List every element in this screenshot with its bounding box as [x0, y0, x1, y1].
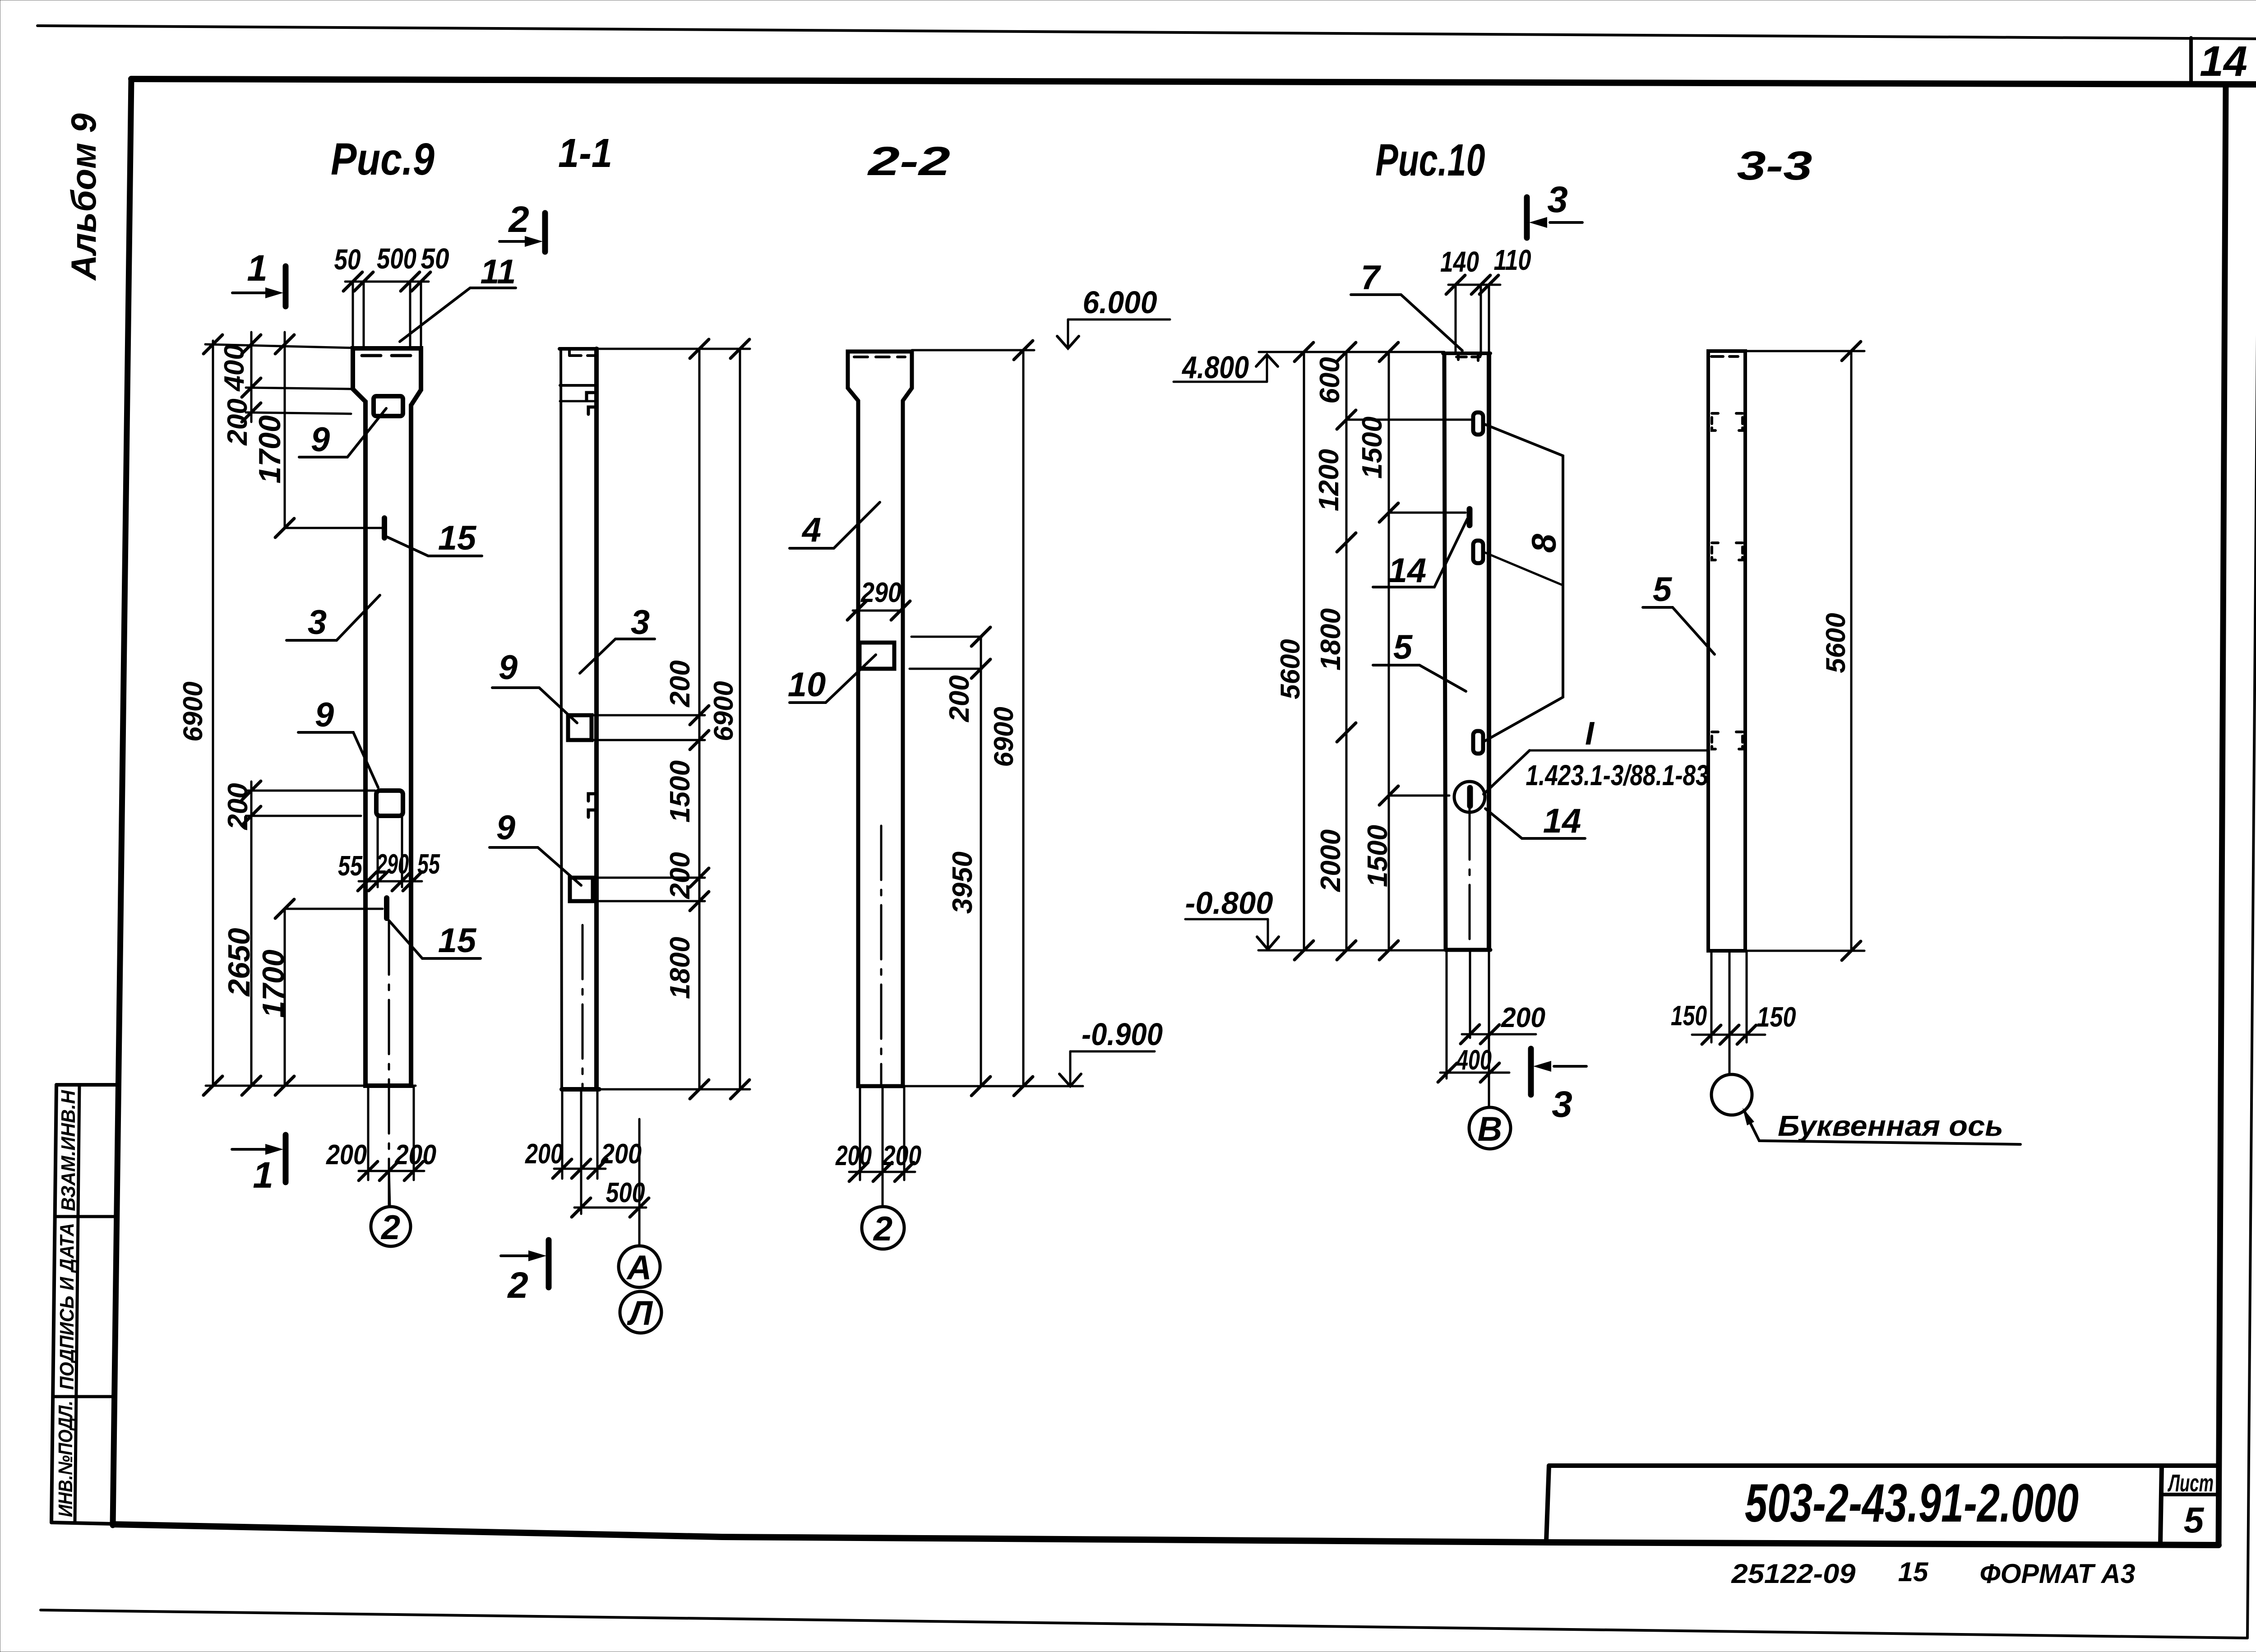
svg-text:1: 1 [253, 1155, 273, 1196]
svg-text:I: I [1585, 716, 1595, 752]
left stamp strip outline [56, 1083, 118, 1087]
title block top line [1549, 1463, 2219, 1468]
svg-text:14: 14 [2200, 37, 2247, 85]
chain 600/1200/1800/2000 [1345, 352, 1348, 950]
circled fixing mark 14 [1454, 782, 1485, 812]
top extension line [597, 348, 750, 350]
svg-text:200: 200 [525, 1138, 563, 1170]
svg-text:5: 5 [2184, 1500, 2205, 1540]
fixture slot 2 [1473, 541, 1483, 563]
dim 200 [1462, 1033, 1536, 1036]
label 9 bottom [490, 847, 581, 885]
svg-text:А: А [626, 1249, 652, 1287]
svg-text:Рис.10: Рис.10 [1376, 135, 1485, 185]
label 10 [790, 655, 876, 703]
Лист box divider horizontal [2162, 1493, 2219, 1496]
svg-text:2: 2 [507, 1265, 528, 1306]
label 9 lower [298, 732, 378, 787]
dim chain 200/1500/200/1800 [698, 349, 701, 1089]
svg-text:2: 2 [873, 1210, 892, 1248]
svg-text:ПОДПИСЬ И ДАТА: ПОДПИСЬ И ДАТА [56, 1223, 78, 1390]
column 3 centerline [880, 826, 883, 1086]
svg-text:4.800: 4.800 [1181, 350, 1249, 385]
svg-text:1800: 1800 [665, 937, 696, 999]
main frame left border [113, 79, 131, 1525]
svg-text:200: 200 [222, 783, 254, 830]
column 2 opening 2 (pos.9) [570, 878, 593, 901]
bottom dim 150 150 [1692, 1034, 1765, 1036]
section mark 2 bottom [546, 1240, 552, 1287]
fixture hooks pair 2 [1712, 543, 1718, 560]
label 7 [1351, 295, 1462, 351]
top extension line to left dims [205, 344, 354, 348]
svg-text:1500: 1500 [1362, 825, 1393, 887]
label 5 [1643, 607, 1715, 654]
chain 2650 [250, 782, 253, 1086]
section mark 1 top [283, 266, 289, 306]
svg-text:200: 200 [326, 1139, 367, 1171]
svg-text:500: 500 [377, 242, 416, 275]
svg-text:25122-09: 25122-09 [1731, 1559, 1856, 1589]
svg-text:4: 4 [801, 511, 821, 549]
bottom extension line [904, 1085, 1083, 1087]
letter axis circle [1711, 1074, 1752, 1115]
svg-text:9: 9 [496, 809, 515, 847]
Лист box divider vertical [2160, 1466, 2162, 1544]
svg-text:200: 200 [394, 1139, 436, 1171]
column 1 centerline [388, 921, 390, 1205]
label 9 top [492, 688, 577, 723]
svg-text:-0.900: -0.900 [1082, 1017, 1163, 1052]
opening extension lines [592, 714, 705, 717]
svg-text:10: 10 [788, 666, 826, 704]
outer thin border bottom line [41, 1610, 2247, 1638]
verticals below bottom [1446, 950, 1448, 1078]
axis circle 2 [371, 1207, 411, 1246]
title block left edge [1546, 1466, 1549, 1541]
svg-text:150: 150 [1757, 1002, 1796, 1033]
dim 5600 [1850, 351, 1853, 951]
column 3 top recess dashed [854, 356, 905, 358]
fixture hooks pair 1 [1712, 413, 1718, 430]
bottom extension line [1258, 949, 1446, 952]
column 2 centerline [582, 925, 584, 1089]
svg-text:1.423.1-3/88.1-83: 1.423.1-3/88.1-83 [1526, 759, 1709, 791]
verticals below bottom [1710, 951, 1713, 1042]
verticals below bottom [561, 1089, 564, 1179]
dim line 5600 [1303, 352, 1305, 950]
dim 3950 [980, 669, 982, 1086]
sheet number box top-right [2189, 38, 2193, 84]
label 14 lower [1485, 809, 1585, 838]
bracket 8 [1484, 424, 1563, 741]
elevation -0.900 [1069, 1051, 1072, 1085]
chain 1500/1500 [1388, 352, 1390, 950]
label 9 upper [299, 408, 386, 457]
fixture slot 1 [1473, 412, 1483, 435]
dim 55 290 55 [377, 816, 379, 887]
chain 200 lower [250, 782, 253, 825]
svg-text:9: 9 [499, 648, 518, 687]
svg-text:400: 400 [1456, 1045, 1492, 1076]
column 5 top recess dashed [1711, 355, 1738, 358]
column 3 opening (pos.10) [860, 643, 894, 669]
svg-text:1500: 1500 [1357, 416, 1388, 479]
svg-text:150: 150 [1671, 1000, 1707, 1032]
left stamp strip row line 1 [55, 1215, 117, 1218]
label 4 [790, 502, 880, 548]
column 4 centerline [1469, 805, 1471, 950]
column 2 opening 1 (pos.9) [568, 715, 592, 740]
weld mark 15 upper [382, 518, 387, 538]
feature line to circled mark [1389, 795, 1449, 797]
dim line 6900 [739, 349, 741, 1089]
leader Буквенная ось [1744, 1111, 2020, 1144]
svg-text:200: 200 [944, 675, 975, 722]
svg-text:7: 7 [1361, 259, 1382, 297]
chain 1700 upper [284, 332, 286, 528]
svg-text:6900: 6900 [178, 681, 208, 741]
svg-text:2-2: 2-2 [867, 139, 950, 184]
svg-text:3: 3 [631, 603, 650, 642]
main frame bottom border [113, 1524, 2219, 1545]
verticals below bottom [859, 1086, 861, 1180]
svg-text:2000: 2000 [1315, 829, 1346, 892]
svg-text:5600: 5600 [1821, 613, 1851, 673]
svg-text:5600: 5600 [1275, 639, 1305, 699]
feature line at 600 [1346, 419, 1472, 421]
svg-text:400: 400 [219, 344, 250, 392]
dim line 6900 [212, 341, 214, 1086]
svg-text:3: 3 [1552, 1084, 1572, 1125]
svg-text:200: 200 [1501, 1002, 1545, 1033]
leader and label 11 [400, 288, 516, 342]
axis circle А [619, 1246, 660, 1287]
fixture slot 3 [1473, 731, 1483, 754]
section mark 3 top [1524, 197, 1530, 238]
svg-text:3950: 3950 [947, 851, 978, 914]
column 5 outline [1708, 351, 1745, 951]
column 2 joint band [560, 384, 596, 387]
svg-text:Лист: Лист [2167, 1470, 2214, 1497]
dim 290 [853, 610, 904, 612]
column 4 top recess dashed [1456, 356, 1480, 358]
svg-text:ВЗАМ.ИНВ.Н: ВЗАМ.ИНВ.Н [57, 1090, 79, 1211]
column 4 outline [1443, 352, 1490, 355]
svg-text:9: 9 [311, 421, 330, 459]
svg-text:1-1: 1-1 [558, 131, 612, 176]
dim 400 [1440, 1072, 1509, 1074]
left stamp strip row line 2 [54, 1395, 115, 1398]
svg-text:1800: 1800 [1315, 608, 1346, 671]
svg-text:8: 8 [1525, 533, 1563, 553]
axis circle В [1469, 1107, 1511, 1149]
fixture hooks pair 3 [1712, 732, 1718, 749]
chain 400/200 [250, 332, 253, 422]
left stamp strip inner column divider [75, 1085, 79, 1522]
svg-text:15: 15 [438, 519, 477, 557]
fixing mark 14 [1467, 509, 1473, 525]
column 2 top recess dashed [568, 350, 571, 356]
embedded hook top pair [587, 393, 594, 400]
svg-text:200: 200 [665, 852, 696, 899]
bottom dim 200 200 [367, 1086, 370, 1180]
svg-text:2: 2 [508, 199, 529, 240]
label 14 upper [1373, 519, 1467, 587]
svg-text:ФОРМАТ А3: ФОРМАТ А3 [1980, 1559, 2136, 1589]
section mark 3 bottom [1528, 1049, 1534, 1095]
top extension line [1745, 350, 1864, 352]
svg-text:503-2-43.91-2.000: 503-2-43.91-2.000 [1745, 1473, 2079, 1533]
dim 500 [574, 1207, 646, 1209]
feature line to mark 14 [1389, 512, 1465, 514]
svg-text:В: В [1478, 1110, 1502, 1148]
dim 200 at opening [911, 636, 982, 638]
svg-text:55: 55 [417, 849, 440, 880]
column 1 lower opening (pos.9) [376, 791, 403, 816]
label 5 [1373, 665, 1466, 691]
svg-text:6900: 6900 [989, 707, 1019, 767]
bottom dim 200 200 [554, 1168, 606, 1170]
svg-text:14: 14 [1543, 802, 1581, 840]
svg-text:15: 15 [438, 921, 477, 960]
svg-text:1: 1 [247, 248, 268, 289]
svg-text:290: 290 [860, 577, 901, 608]
svg-text:Рис.9: Рис.9 [331, 134, 435, 185]
axis line [638, 1119, 641, 1246]
column 1 top recess dashed [362, 354, 411, 357]
svg-text:1700: 1700 [256, 949, 291, 1018]
label 15 lower [389, 921, 481, 958]
embedded hook middle pair [588, 794, 595, 801]
dim 6900 [1022, 350, 1025, 1086]
outer thin border top line [37, 26, 2256, 39]
top extension line [912, 349, 1034, 352]
bottom dim 200 200 [849, 1171, 915, 1173]
svg-text:15: 15 [1898, 1557, 1929, 1587]
svg-text:55: 55 [338, 851, 363, 882]
svg-text:ИНВ.№ПОДЛ.: ИНВ.№ПОДЛ. [55, 1401, 77, 1517]
bottom extension line [1745, 950, 1864, 952]
svg-text:50: 50 [421, 242, 449, 275]
svg-text:200: 200 [835, 1140, 872, 1171]
axis line to circle [389, 1171, 390, 1207]
column 1 outline [353, 348, 421, 1086]
label 3 [580, 639, 655, 673]
svg-text:Альбом 9: Альбом 9 [64, 113, 103, 281]
bottom extension line [599, 1088, 750, 1091]
svg-text:-0.800: -0.800 [1185, 885, 1273, 921]
svg-text:3: 3 [308, 603, 327, 642]
level extension line 4.800 [1259, 351, 1444, 353]
svg-text:14: 14 [1388, 551, 1427, 590]
section mark 2 top [542, 213, 548, 252]
svg-text:110: 110 [1494, 244, 1531, 276]
svg-text:1700: 1700 [253, 415, 287, 483]
outer thin border right line [2247, 39, 2256, 1638]
label 15 upper [387, 537, 482, 556]
column 3 outline [848, 352, 912, 1086]
svg-text:600: 600 [1314, 357, 1345, 403]
label 3 [287, 595, 380, 640]
svg-text:200: 200 [601, 1138, 642, 1170]
svg-text:290: 290 [376, 849, 409, 880]
svg-text:200: 200 [222, 398, 253, 445]
svg-text:5: 5 [1653, 570, 1673, 609]
svg-text:5: 5 [1393, 628, 1413, 666]
svg-text:1200: 1200 [1313, 449, 1345, 511]
main frame top border [131, 79, 2256, 84]
svg-text:50: 50 [334, 243, 361, 276]
axis circle Л [620, 1291, 661, 1333]
svg-text:200: 200 [665, 660, 696, 707]
svg-text:3: 3 [1547, 179, 1568, 220]
svg-text:Л: Л [627, 1294, 653, 1333]
svg-text:9: 9 [315, 696, 334, 734]
bottom extension line [206, 1085, 416, 1087]
svg-text:140: 140 [1440, 245, 1479, 278]
svg-text:1500: 1500 [665, 760, 696, 823]
top dim line 50 500 50 [345, 281, 429, 283]
svg-text:2650: 2650 [222, 928, 256, 997]
svg-text:6.000: 6.000 [1083, 285, 1157, 320]
column 1 head opening (pos.9) [374, 396, 403, 416]
section mark 1 bottom [283, 1135, 289, 1182]
svg-text:6900: 6900 [708, 681, 739, 741]
svg-text:11: 11 [481, 253, 516, 291]
svg-text:3-3: 3-3 [1737, 143, 1812, 189]
top dim 140 110 [1448, 284, 1500, 286]
svg-text:Буквенная ось: Буквенная ось [1778, 1110, 2003, 1142]
column 2 outline [559, 347, 597, 351]
svg-text:200: 200 [882, 1140, 921, 1171]
svg-text:2: 2 [380, 1208, 400, 1247]
main frame right border [2219, 84, 2226, 1545]
elevation 6.000 [1067, 319, 1069, 347]
axis circle 2 [862, 1207, 904, 1249]
chain 1700 lower [284, 909, 286, 1086]
weld mark 15 lower [384, 898, 389, 918]
